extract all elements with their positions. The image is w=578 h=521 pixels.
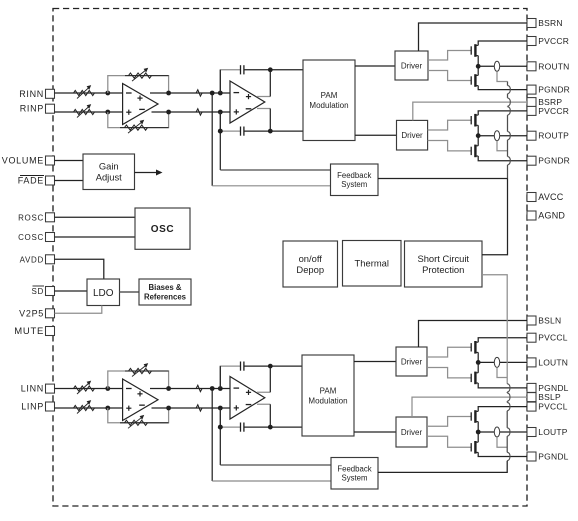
pin RINP xyxy=(20,104,55,114)
block Feedback System left xyxy=(331,458,378,490)
wire LOUTN-highlow low-gate xyxy=(427,368,471,378)
wire ROUTP-highlow output to pin xyxy=(478,135,527,137)
wire sense plus to feedback xyxy=(220,169,331,171)
node LOUTN-highlow output junction xyxy=(476,360,481,365)
wire sense bus segment L xyxy=(506,411,508,428)
wire RINP input row xyxy=(55,111,123,113)
svg-text:AGND: AGND xyxy=(538,211,565,221)
hop PVCCL2 crossing xyxy=(507,402,510,410)
svg-text:V2P5: V2P5 xyxy=(19,308,44,318)
wire sense plus to feedback xyxy=(220,464,331,466)
wire LOUTN-highlow high-gate xyxy=(427,347,471,357)
pin AGND xyxy=(527,211,565,221)
pin PGNDR xyxy=(527,85,570,95)
wire short-circuit to sense bus left-channel xyxy=(482,275,507,384)
node input- junction xyxy=(105,91,110,96)
wire LDO to biases xyxy=(120,291,140,293)
pin PGNDR2 xyxy=(527,156,570,166)
node cap lower junction xyxy=(218,425,223,430)
svg-text:PVCCL: PVCCL xyxy=(538,402,567,412)
svg-text:PVCCR: PVCCR xyxy=(538,36,569,46)
svg-text:FADE: FADE xyxy=(18,176,44,186)
wire PAM to driver3 xyxy=(354,361,396,363)
wire sense bus to feedback junction xyxy=(507,165,509,179)
wire opamp out upper stub xyxy=(257,96,270,98)
wire opamp out upper stub xyxy=(257,391,270,393)
op-amp second-stage R-channel xyxy=(230,81,265,123)
svg-text:System: System xyxy=(342,474,368,483)
block LDO xyxy=(87,279,120,306)
svg-text:MUTE: MUTE xyxy=(14,326,44,337)
sense transformer ROUTP-highlow xyxy=(494,131,499,141)
svg-text:SD: SD xyxy=(31,287,44,296)
svg-text:LOUTP: LOUTP xyxy=(538,427,567,437)
svg-text:Thermal: Thermal xyxy=(355,258,389,269)
pin PVCCL xyxy=(527,333,568,343)
svg-text:LINP: LINP xyxy=(21,402,44,412)
block Driver 4 xyxy=(396,417,427,447)
node second-stage minus B xyxy=(218,91,223,96)
wire FADE to gain adjust xyxy=(55,180,84,182)
capacitor integrator upper xyxy=(240,362,242,371)
wire opamp out lower stub xyxy=(257,108,270,110)
pin PVCCL2 xyxy=(527,402,568,412)
wire ROUTP-highlow high-gate xyxy=(428,120,472,130)
transistor ROUTP-highlow low-side FET xyxy=(470,147,472,155)
wire LOUTP-highlow high drain to rail xyxy=(478,407,527,412)
svg-text:OSC: OSC xyxy=(151,224,174,235)
svg-text:LDO: LDO xyxy=(93,288,114,299)
svg-text:BSRN: BSRN xyxy=(538,18,562,28)
pin LOUTN xyxy=(527,357,568,367)
sense transformer ROUTN-highlow xyxy=(494,61,499,71)
pin COSC xyxy=(18,233,54,243)
wire-break squiggle upper xyxy=(194,385,206,391)
transistor LOUTP-highlow high-side FET xyxy=(470,412,472,420)
hop LOUTP crossing xyxy=(507,428,510,436)
svg-text:Driver: Driver xyxy=(401,61,423,70)
pin ROUTP xyxy=(527,131,569,141)
node sense plus junction xyxy=(218,129,223,134)
svg-text:COSC: COSC xyxy=(18,233,44,242)
node input+ junction xyxy=(105,110,110,115)
arrow gain adjust output xyxy=(135,172,160,174)
block Short Circuit Protection xyxy=(405,241,483,287)
pin PGNDL2 xyxy=(527,452,569,462)
resistor L-input upper (volume-controlled) xyxy=(74,386,95,391)
pin FADE xyxy=(18,176,55,186)
wire sense bus to feedback2 xyxy=(378,461,507,473)
wire AVDD to LDO xyxy=(55,259,104,279)
wire ROUTN-highlow high-gate xyxy=(428,51,471,61)
node second-stage minus B xyxy=(218,386,223,391)
wire ROUTN-highlow sense tail xyxy=(497,71,508,81)
pin PVCCR xyxy=(527,36,569,46)
pin PGNDL xyxy=(527,383,569,393)
pin LOUTP xyxy=(527,427,568,437)
wire opamp out lower stub xyxy=(257,403,270,405)
block PAM Modulation left xyxy=(302,355,354,436)
wire interstage upper row xyxy=(150,388,230,390)
node LOUTP-highlow output junction xyxy=(476,430,481,435)
capacitor integrator lower xyxy=(240,423,242,432)
svg-text:PGNDL: PGNDL xyxy=(538,452,568,462)
outer dashed package boundary xyxy=(53,9,527,507)
svg-text:Modulation: Modulation xyxy=(309,101,348,110)
node ROUTP-highlow output junction xyxy=(476,133,481,138)
wire PAM to driver2 xyxy=(355,134,397,136)
node input- junction xyxy=(105,386,110,391)
transistor LOUTN-highlow high-side FET xyxy=(470,343,472,351)
wire LOUTP-highlow output to pin xyxy=(478,431,527,433)
hop PGNDL crossing xyxy=(507,384,510,392)
wire ROUTN-highlow high drain to rail xyxy=(478,41,527,45)
wire ROUTN-highlow low drain to node xyxy=(477,66,479,75)
svg-text:Feedback: Feedback xyxy=(337,171,371,180)
wire sense minus to feedback xyxy=(212,480,331,482)
sense transformer LOUTP-highlow xyxy=(494,427,499,437)
svg-text:PVCCL: PVCCL xyxy=(538,333,567,343)
capacitor integrator upper xyxy=(240,65,242,74)
transistor LOUTN-highlow low-side FET xyxy=(470,374,472,382)
wire V2P5 to LDO xyxy=(55,306,102,314)
node cap lower to output xyxy=(268,425,273,430)
node feedback lower to output xyxy=(166,406,171,411)
wire LOUTN-highlow high source to node xyxy=(477,352,479,362)
sense transformer LOUTN-highlow xyxy=(494,357,499,367)
wire ROUTN-highlow high source to node xyxy=(477,56,479,67)
pin PVCCR2 xyxy=(527,106,569,116)
node second-stage minus A xyxy=(210,386,215,391)
op-amp first-stage R-channel xyxy=(123,84,158,125)
pin MUTE xyxy=(14,326,54,337)
resistor R-input lower (volume-controlled) xyxy=(74,109,95,114)
wire LOUTN-highlow output to pin xyxy=(478,361,527,363)
svg-text:Feedback: Feedback xyxy=(337,464,371,473)
wire cap lower branch xyxy=(220,112,240,131)
wire BSLN to driver3 xyxy=(419,321,528,348)
svg-text:Driver: Driver xyxy=(401,357,423,366)
svg-text:Driver: Driver xyxy=(401,428,423,437)
block Driver 1 xyxy=(395,51,428,80)
svg-text:RINN: RINN xyxy=(19,89,44,99)
svg-text:System: System xyxy=(341,180,367,189)
transistor ROUTN-highlow high-side FET xyxy=(470,46,472,54)
hop PVCCR crossing xyxy=(508,107,511,115)
wire RINN input row xyxy=(55,92,123,94)
pin V2P5 xyxy=(19,308,54,318)
wire BSRN to driver1 xyxy=(419,23,528,51)
wire sense bus to short-circuit xyxy=(482,179,508,255)
hop BSLP crossing xyxy=(507,393,510,401)
wire ROSC to OSC xyxy=(55,216,136,218)
node feedback upper to output xyxy=(166,386,171,391)
wire feedback1 output xyxy=(378,178,508,180)
node second-stage plus xyxy=(218,406,223,411)
wire ROUTP-highlow sense tail xyxy=(497,141,508,151)
wire LINP input row xyxy=(55,407,123,409)
wire interstage upper row xyxy=(150,92,230,94)
pin BSRP xyxy=(527,97,562,107)
svg-text:AVCC: AVCC xyxy=(538,192,563,202)
svg-text:PGNDR: PGNDR xyxy=(538,85,570,95)
svg-text:RINP: RINP xyxy=(20,104,44,114)
op-amp second-stage L-channel xyxy=(230,377,265,420)
node ROUTN-highlow output junction xyxy=(476,64,481,69)
wire PAM to driver1 xyxy=(355,65,395,67)
block Driver 3 xyxy=(396,347,427,376)
wire sense plus vertical xyxy=(219,427,221,465)
transistor ROUTN-highlow low-side FET xyxy=(470,76,472,84)
svg-text:Protection: Protection xyxy=(422,264,464,275)
resistor feedback upper xyxy=(129,73,152,78)
node sense plus junction xyxy=(218,425,223,430)
svg-text:PVCCR: PVCCR xyxy=(538,106,569,116)
svg-text:References: References xyxy=(144,292,187,301)
svg-text:Depop: Depop xyxy=(296,264,324,275)
pin LINN xyxy=(21,384,55,394)
wire cap lower branch xyxy=(220,408,240,427)
wire LOUTP-highlow low source to ground rail xyxy=(478,452,527,456)
wire sense minus vertical xyxy=(211,389,213,482)
wire ROUTP-highlow high drain to rail xyxy=(478,111,527,115)
wire feedback lower loop xyxy=(108,112,169,128)
resistor feedback lower xyxy=(125,420,148,425)
pin AVDD xyxy=(20,255,55,264)
wire sense bus segment xyxy=(507,115,509,131)
svg-text:Adjust: Adjust xyxy=(96,172,122,183)
wire LOUTP-highlow high source to node xyxy=(477,422,479,432)
svg-text:ROSC: ROSC xyxy=(18,213,44,222)
node input+ junction xyxy=(105,406,110,411)
block Gain Adjust xyxy=(83,154,135,190)
svg-text:LINN: LINN xyxy=(21,384,44,394)
resistor R-input upper (volume-controlled) xyxy=(74,90,95,95)
node second-stage plus xyxy=(218,110,223,115)
block PAM Modulation right xyxy=(303,60,355,141)
svg-text:BSLP: BSLP xyxy=(538,392,561,402)
transistor LOUTP-highlow low-side FET xyxy=(470,443,472,451)
wire interstage lower row xyxy=(152,111,231,113)
wire LOUTN-highlow sense tail xyxy=(497,367,507,377)
wire LOUTP-highlow low-gate xyxy=(427,436,471,447)
wire sense plus vertical xyxy=(219,131,221,170)
wire VOLUME to gain adjust xyxy=(55,160,84,162)
wire sense bus segment xyxy=(507,105,509,107)
svg-text:BSLN: BSLN xyxy=(538,316,561,326)
wire ROUTP-highlow low drain to node xyxy=(477,136,479,146)
svg-text:Short Circuit: Short Circuit xyxy=(417,253,469,264)
pin RINN xyxy=(19,89,54,99)
svg-text:Gain: Gain xyxy=(99,161,119,172)
wire sense bus segment xyxy=(507,94,509,98)
wire interstage lower row xyxy=(152,407,231,409)
svg-text:PGNDR: PGNDR xyxy=(538,156,570,166)
wire sense bus segment L xyxy=(506,436,508,452)
node feedback upper to output xyxy=(166,91,171,96)
svg-text:on/off: on/off xyxy=(299,253,323,264)
svg-text:ROUTP: ROUTP xyxy=(538,131,569,141)
svg-text:ROUTN: ROUTN xyxy=(538,61,569,71)
wire feedback upper loop xyxy=(108,76,169,93)
pin VOLUME xyxy=(2,156,55,166)
node cap lower to output xyxy=(268,129,273,134)
block Biases and References xyxy=(139,279,191,305)
wire sense bus segment L xyxy=(506,401,508,402)
pin BSLN xyxy=(527,316,561,326)
wire BSRP to driver2 xyxy=(413,102,527,120)
resistor L-input lower (volume-controlled) xyxy=(74,405,95,410)
wire PAM to driver4 xyxy=(354,431,396,433)
wire sense bus right-channel upper xyxy=(507,82,509,86)
block on/off Depop xyxy=(283,241,338,287)
wire sense minus vertical xyxy=(211,93,213,186)
hop ROUTP crossing xyxy=(508,132,511,140)
svg-text:Biases &: Biases & xyxy=(149,283,182,292)
pin SD xyxy=(31,286,54,296)
resistor feedback upper xyxy=(129,368,152,373)
block OSC xyxy=(135,208,190,249)
wire-break squiggle upper xyxy=(194,90,206,96)
hop PGNDL2 crossing xyxy=(507,452,510,460)
pin LINP xyxy=(21,402,54,412)
pin BSRN xyxy=(527,18,563,28)
block Thermal xyxy=(343,241,402,287)
wire BSLP to driver4 xyxy=(412,397,527,417)
wire ROUTP-highlow low-gate xyxy=(428,141,472,151)
hop PGNDR2 crossing xyxy=(508,157,511,165)
pin ROSC xyxy=(18,213,54,223)
node cap lower junction xyxy=(218,129,223,134)
wire ROUTN-highlow low-gate xyxy=(428,71,471,81)
wire COSC to OSC xyxy=(55,236,136,238)
svg-text:PAM: PAM xyxy=(320,386,337,395)
wire feedback upper loop xyxy=(108,371,169,389)
svg-text:Modulation: Modulation xyxy=(308,396,347,405)
wire ROUTN-highlow output to pin xyxy=(478,65,527,67)
wire LOUTN-highlow low drain to node xyxy=(477,362,479,372)
node cap upper to output xyxy=(268,364,273,369)
wire SD to LDO xyxy=(55,290,88,292)
wire cap upper branch xyxy=(220,70,240,93)
wire LOUTN-highlow low source to ground rail xyxy=(478,383,527,388)
wire-break squiggle lower xyxy=(194,405,206,411)
wire LOUTP-highlow low drain to node xyxy=(477,432,479,442)
wire ROUTP-highlow high source to node xyxy=(477,125,479,135)
pin BSLP xyxy=(527,392,561,402)
wire cap upper branch xyxy=(220,366,240,388)
wire sense bus segment L xyxy=(506,391,508,394)
op-amp first-stage L-channel xyxy=(123,379,158,421)
svg-text:VOLUME: VOLUME xyxy=(2,156,44,166)
hop BSRP crossing xyxy=(508,98,511,106)
pin AVCC xyxy=(527,192,564,202)
wire sense bus segment xyxy=(507,140,509,157)
pin ROUTN xyxy=(527,61,570,71)
capacitor integrator lower xyxy=(240,127,242,136)
wire LOUTN-highlow high drain to rail xyxy=(478,338,527,343)
wire-break squiggle lower xyxy=(194,109,206,115)
wire LINN input row xyxy=(55,388,123,390)
svg-text:Driver: Driver xyxy=(401,131,423,140)
block Feedback System right xyxy=(331,164,379,196)
wire sense minus to feedback xyxy=(212,185,331,187)
wire LOUTP-highlow sense tail xyxy=(497,437,507,447)
hop PGNDR crossing xyxy=(508,85,511,93)
block Driver 2 xyxy=(397,120,428,150)
wire ROUTP-highlow low source to ground rail xyxy=(478,156,527,161)
svg-text:LOUTN: LOUTN xyxy=(538,357,568,367)
wire feedback lower loop xyxy=(108,408,169,423)
transistor ROUTP-highlow high-side FET xyxy=(470,116,472,124)
node second-stage minus A xyxy=(210,91,215,96)
svg-text:AVDD: AVDD xyxy=(20,255,44,264)
wire LOUTP-highlow high-gate xyxy=(427,417,471,427)
wire ROUTN-highlow low source to ground rail xyxy=(478,86,527,90)
node feedback lower to output xyxy=(166,110,171,115)
node cap upper to output xyxy=(268,67,273,72)
svg-text:PAM: PAM xyxy=(321,91,338,100)
resistor feedback lower xyxy=(125,125,148,130)
